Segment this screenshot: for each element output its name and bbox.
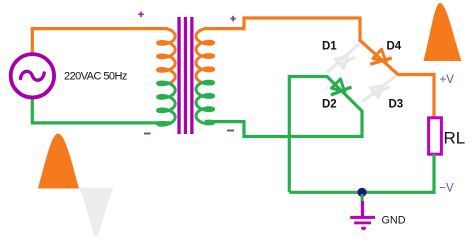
svg-text:D3: D3 bbox=[389, 99, 404, 111]
diode D2 cathode bar bbox=[331, 87, 352, 95]
node junction dot (GND node) bbox=[357, 188, 366, 197]
diode D1 triangle bbox=[335, 57, 347, 69]
ground symbol bar 2 bbox=[354, 222, 371, 225]
diode D1 cathode bar bbox=[339, 57, 356, 66]
diode D3 (off, gray) line bbox=[363, 76, 396, 102]
resistor RL bbox=[429, 118, 442, 154]
transformer core bar 1 bbox=[177, 17, 180, 134]
diode D4 cathode bar bbox=[370, 58, 392, 64]
wire: green RL bottom to -V rail bbox=[289, 154, 434, 192]
transformer primary winding lower half (green) bbox=[158, 82, 176, 125]
wire: green bottom-left from source to primary coil bbox=[32, 99, 172, 123]
waveform: rectified output pulse (orange) bbox=[424, 3, 462, 61]
sine symbol inside source bbox=[21, 71, 45, 80]
diode D3 cathode bar bbox=[373, 87, 391, 96]
svg-text:D4: D4 bbox=[387, 41, 402, 53]
svg-text:D1: D1 bbox=[322, 41, 337, 53]
svg-text:220VAC 50Hz: 220VAC 50Hz bbox=[64, 71, 127, 83]
wire: orange top-left from source to primary coil bbox=[32, 29, 168, 53]
wire: orange secondary top to bridge top vertex bbox=[204, 18, 360, 41]
ground node green stub bbox=[361, 194, 364, 202]
waveform: input sine positive half (orange) bbox=[38, 134, 79, 189]
polarity label + (secondary top) bbox=[230, 16, 236, 22]
transformer core bar 2 bbox=[184, 17, 187, 134]
wire: orange bridge diagonal through D4 to +V corner and RL top bbox=[359, 39, 434, 118]
diode D3 triangle bbox=[371, 86, 384, 98]
polarity label + (primary top) bbox=[138, 12, 144, 18]
waveform: input sine negative half (gray) bbox=[79, 188, 114, 237]
ground symbol bar 1 bbox=[350, 216, 375, 219]
wire: green -V rail up, across, and diagonal through D2 down to AC-B, back to secondary bbox=[206, 77, 362, 193]
ground symbol stem bbox=[361, 201, 364, 216]
svg-text:RL: RL bbox=[444, 129, 466, 148]
transformer secondary winding upper half (orange) bbox=[196, 29, 214, 82]
svg-text:+V: +V bbox=[440, 74, 455, 86]
AC source V1 bbox=[11, 54, 54, 97]
diode D1 (off, gray) anode line bbox=[327, 42, 361, 72]
svg-text:D2: D2 bbox=[322, 99, 337, 111]
transformer primary winding upper half (orange) bbox=[158, 29, 176, 83]
transformer secondary winding lower half (green) bbox=[196, 81, 214, 124]
diode D4 triangle bbox=[373, 49, 386, 62]
polarity label - (secondary bottom) bbox=[227, 130, 234, 132]
polarity label - (primary bottom) bbox=[144, 133, 151, 135]
ground symbol bar 3 bbox=[361, 227, 366, 230]
svg-text:GND: GND bbox=[382, 214, 406, 226]
svg-text:−V: −V bbox=[439, 183, 454, 195]
diode D2 triangle bbox=[332, 79, 345, 92]
transformer core bar 3 bbox=[190, 17, 193, 134]
